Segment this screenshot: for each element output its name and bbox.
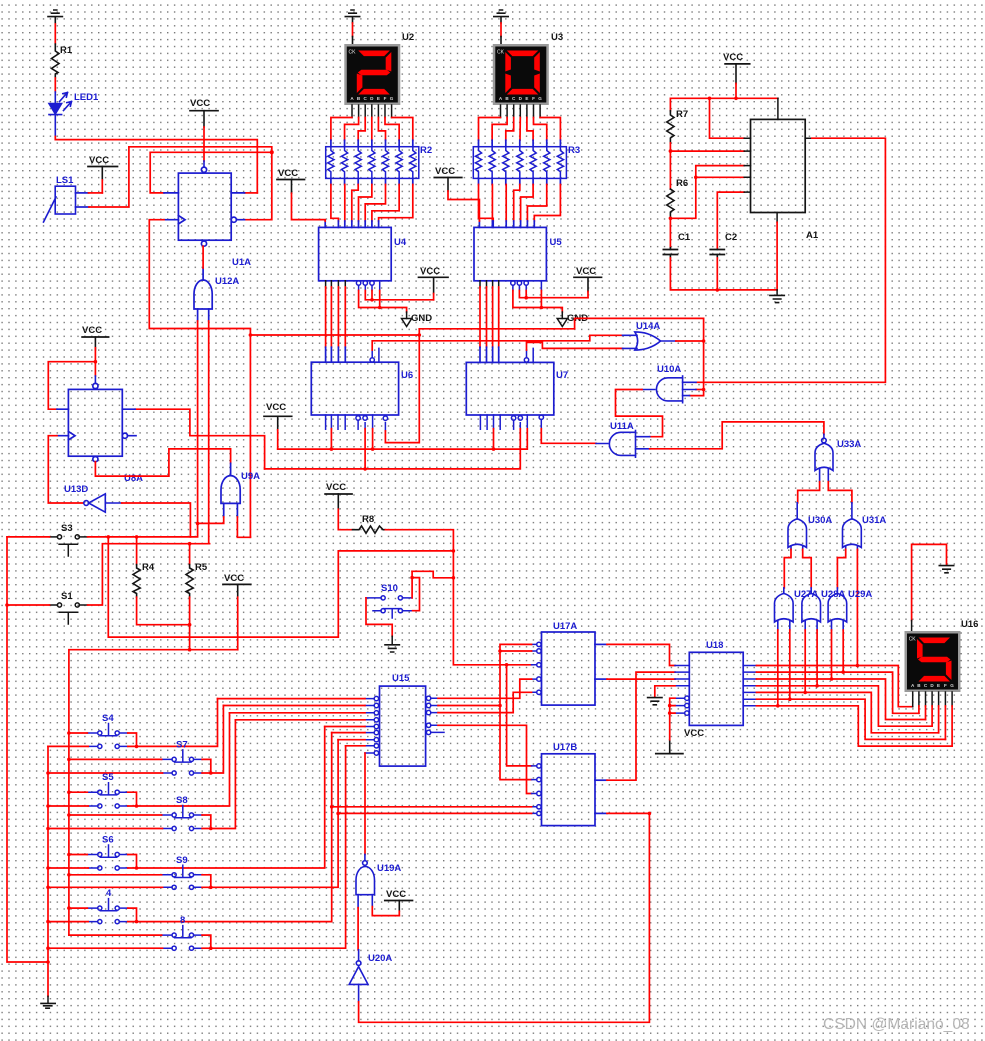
- VCC (U1A preset): [190, 98, 218, 166]
- node line3/line2 junction: [270, 150, 274, 154]
- wire LED1 to line1: [55, 137, 257, 193]
- wire U1A clock from vertical: [149, 220, 250, 335]
- NOR gate U33A: [815, 434, 833, 481]
- wire U5 outputs down to U7: [480, 281, 499, 287]
- svg-text:8: 8: [180, 915, 185, 926]
- U17B input bubbles: [532, 764, 542, 816]
- wire VCC to U8A J input: [48, 362, 95, 410]
- ground bus (switch commons): [47, 746, 49, 996]
- svg-text:VCC: VCC: [224, 573, 244, 584]
- wire U9A right input: [237, 517, 250, 537]
- ground (above U3): [494, 10, 508, 23]
- svg-text:U10A: U10A: [657, 364, 681, 375]
- svg-text:U1A: U1A: [232, 257, 251, 268]
- svg-text:VCC: VCC: [684, 728, 704, 739]
- svg-text:S5: S5: [102, 772, 114, 783]
- svg-text:U5: U5: [550, 237, 563, 248]
- svg-text:S9: S9: [176, 855, 188, 866]
- svg-text:F: F: [384, 96, 387, 101]
- svg-text:G: G: [390, 96, 394, 101]
- resistor R6: [667, 189, 674, 218]
- wire U4 RBI/VCC: [365, 291, 433, 300]
- svg-text:VCC: VCC: [723, 52, 743, 63]
- svg-text:U19A: U19A: [377, 863, 401, 874]
- wire U7 count-enable line: [527, 342, 623, 350]
- svg-text:U2: U2: [402, 32, 414, 43]
- svg-text:U29A: U29A: [848, 589, 872, 600]
- svg-text:U7: U7: [556, 370, 568, 381]
- wire U16 CK to ground: [912, 544, 947, 620]
- svg-text:F: F: [944, 683, 947, 688]
- wire S6: [48, 727, 325, 869]
- VCC (LS1): [88, 155, 118, 193]
- svg-text:C1: C1: [678, 232, 691, 243]
- wire U7 load pin down to U11A out: [541, 429, 596, 444]
- wire R4 bottom: [137, 597, 190, 625]
- IC U7: [466, 362, 554, 415]
- svg-text:VCC: VCC: [266, 402, 286, 413]
- svg-text:U31A: U31A: [862, 515, 886, 526]
- wire fan R3 to U5: [479, 178, 561, 184]
- wire S8: [48, 720, 235, 829]
- wire fan U2 to R2: [331, 118, 413, 141]
- U17A input bubbles: [532, 642, 542, 694]
- wire U4 outputs down to U6: [326, 281, 346, 287]
- wire R5 bottom to VCC line: [189, 597, 191, 650]
- AND gate U11A: [596, 431, 650, 458]
- wire 8: [48, 746, 346, 948]
- wire U7 QB to H1: [493, 429, 495, 449]
- svg-text:U4: U4: [394, 237, 407, 248]
- bus (clock line to U9A): [249, 335, 251, 537]
- wire R6 bottom to C1: [669, 218, 671, 247]
- svg-text:U16: U16: [961, 619, 978, 630]
- wire S10 row1 right to R8 net: [412, 571, 453, 598]
- wire U8A Q to H2: [135, 409, 265, 469]
- U4 bottom bubbles: [356, 281, 379, 291]
- wire U17A out2 to U18 pin3: [595, 678, 607, 680]
- svg-text:VCC: VCC: [278, 168, 298, 179]
- svg-text:C2: C2: [725, 232, 737, 243]
- ground (S10): [385, 645, 399, 652]
- wire S5: [48, 713, 230, 806]
- wire A1 output to U10A (long right vertical): [696, 138, 885, 382]
- IC U17A: [542, 632, 596, 705]
- wire U8A clock from U13D: [48, 436, 83, 503]
- wire R8 to S10 net vertical: [385, 530, 531, 665]
- loudspeaker LS1: [44, 186, 76, 222]
- wire to U3 CK: [500, 23, 502, 37]
- IC A1 (555): [751, 119, 806, 212]
- wire U17A out1 to U18 pin1: [595, 643, 607, 645]
- resistor R8: [353, 526, 386, 533]
- U15 right output bubbles: [426, 696, 444, 735]
- svg-text:U20A: U20A: [368, 953, 392, 964]
- wire R1 top: [54, 24, 56, 44]
- svg-text:E: E: [937, 683, 940, 688]
- wire U1A Qbar-bottom to U12A: [202, 246, 204, 268]
- svg-text:GND: GND: [411, 313, 432, 324]
- VCC (U4 pin1): [277, 168, 325, 221]
- svg-text:VCC: VCC: [435, 166, 455, 177]
- svg-text:U12A: U12A: [215, 276, 239, 287]
- OR gate U30A: [788, 503, 807, 550]
- svg-text:E: E: [377, 96, 380, 101]
- wire U13D input to S3 net: [122, 503, 191, 537]
- wire line3 (to U1A J input): [150, 152, 272, 193]
- bus H2 (load line from U8A Q): [265, 429, 521, 469]
- ground (A1): [770, 295, 784, 302]
- wire fan R2 to U4: [331, 178, 413, 184]
- wire U11A bottom input from U33A: [650, 422, 824, 449]
- wire U6 Q2 to H1: [330, 429, 332, 449]
- wire R1 to LED1: [54, 78, 56, 92]
- wire U29A inputs down: [831, 630, 833, 679]
- wire S3 left: [50, 536, 58, 538]
- ground GND (under U4): [402, 312, 412, 327]
- wire U30A inputs: [784, 549, 791, 588]
- switch S8: [162, 806, 203, 831]
- svg-text:S4: S4: [102, 713, 114, 724]
- wire U15 out4 to U17B pin3: [438, 725, 532, 793]
- IC U15: [380, 686, 426, 766]
- wire U14A output: [676, 340, 704, 342]
- LED1: [49, 92, 72, 137]
- svg-text:CK: CK: [497, 50, 505, 56]
- svg-text:U18: U18: [706, 640, 723, 651]
- LS1 bottom pin wire to line2: [76, 206, 90, 208]
- wire R8 net junction to U17B pin1: [507, 665, 532, 766]
- wire fan U3 to R3: [479, 118, 561, 141]
- OR gate U28A: [802, 588, 821, 630]
- VCC (H1 carry line): [264, 402, 292, 449]
- svg-text:U17A: U17A: [553, 621, 577, 632]
- VCC (U4 lamp test): [419, 266, 449, 300]
- OR gate U27A: [775, 588, 794, 630]
- wire U15 pin9 from U19A: [364, 753, 366, 854]
- seven-segment display U3: [493, 44, 549, 105]
- wire U17B out1 to U18 pin2: [595, 779, 607, 781]
- switch 4: [87, 899, 128, 924]
- VCC (U5 lamp test): [574, 266, 602, 298]
- svg-text:CSDN @Mariano_08: CSDN @Mariano_08: [823, 1016, 970, 1033]
- ground (bottom-left): [41, 1003, 55, 1008]
- wire U15 out1 to U17A pin4: [438, 679, 532, 698]
- svg-text:A1: A1: [806, 230, 819, 241]
- wire VCC rail to switch bus: [69, 650, 238, 935]
- svg-text:R8: R8: [362, 514, 374, 525]
- U7 bottom pins: [480, 415, 543, 429]
- wire U12A right input (S1 net vertical): [208, 321, 210, 544]
- svg-text:F: F: [532, 96, 535, 101]
- svg-text:S1: S1: [61, 591, 73, 602]
- resistor R5: [189, 544, 191, 565]
- wire S10 left to ground: [366, 598, 392, 636]
- wire C1 to gnd rail: [670, 258, 777, 290]
- AND gate U12A: [194, 268, 212, 321]
- wire S10 row2 right loop: [412, 578, 419, 611]
- wire U20A input from U17B: [359, 813, 650, 1022]
- resistor R4: [136, 537, 138, 565]
- wire S9: [48, 740, 338, 888]
- svg-text:R2: R2: [420, 145, 432, 156]
- wire S4: [48, 699, 218, 747]
- svg-text:U6: U6: [401, 370, 413, 381]
- flip-flop U8A: [57, 383, 136, 461]
- svg-text:G: G: [950, 683, 954, 688]
- switch 8: [162, 926, 203, 951]
- svg-text:VCC: VCC: [326, 482, 346, 493]
- wire Q stub join: [245, 192, 258, 194]
- wire U15 input lines: [218, 699, 366, 746]
- IC U17B: [542, 754, 596, 826]
- wire U6 count-enable line: [372, 335, 622, 350]
- svg-text:LED1: LED1: [74, 92, 99, 103]
- switch S10: [366, 596, 413, 618]
- svg-text:VCC: VCC: [89, 155, 109, 166]
- wire U6 pin to H1: [372, 429, 374, 449]
- LS1 top pin wire: [76, 192, 89, 194]
- wire U31A right input (to segment line 1): [856, 549, 858, 665]
- svg-text:VCC: VCC: [386, 889, 406, 900]
- svg-text:VCC: VCC: [82, 325, 102, 336]
- ground (U18 pin4): [655, 686, 675, 697]
- wire U8A clear from U9A output: [95, 449, 230, 476]
- switch S6: [87, 845, 128, 870]
- wire discharge line: [670, 150, 744, 152]
- svg-text:CK: CK: [909, 637, 917, 643]
- U6 load bubble (top): [370, 348, 379, 362]
- switch S4: [87, 724, 128, 749]
- wire U10A mid input joint: [696, 389, 704, 391]
- switch S5: [87, 783, 128, 808]
- svg-text:U17B: U17B: [553, 742, 577, 753]
- wire S3 net down to U15 feed line: [108, 537, 452, 637]
- wire R7 to R6 / A1 discharge: [669, 143, 671, 189]
- inverter U20A: [349, 961, 368, 1002]
- U18 right output stubs: [743, 666, 756, 706]
- wire U19A right input from VCC: [372, 907, 399, 916]
- seven-segment display U2: [344, 44, 400, 105]
- svg-text:CK: CK: [349, 50, 357, 56]
- VCC (U18 bubbles): [656, 698, 704, 753]
- NAND U19A: [356, 861, 375, 908]
- wire gnd5 line to U10A inputs: [575, 318, 704, 395]
- capacitor C1: [663, 250, 677, 255]
- svg-text:G: G: [538, 96, 542, 101]
- VCC (A1): [723, 52, 750, 98]
- wire U17B out2 to bottom loop: [595, 812, 607, 814]
- svg-text:R3: R3: [568, 145, 580, 156]
- VCC (pull-up rail): [223, 573, 251, 650]
- wire U15 out2 to U17A pins 1,2 and U17B pin2: [438, 644, 532, 779]
- wire VCC rail to R7 and A1 top: [670, 98, 778, 111]
- bus (line 335 to U6 load): [250, 334, 419, 336]
- IC U4: [319, 227, 392, 280]
- AND gate U9A: [221, 463, 240, 517]
- wire U9A left input: [198, 517, 224, 523]
- bus H1 (carry line): [278, 429, 528, 449]
- U7 load bubble (top): [524, 348, 533, 362]
- wire U6 load pin down: [384, 431, 386, 443]
- svg-text:U3: U3: [551, 32, 563, 43]
- wire S1 right to pull-up line: [79, 604, 87, 606]
- AND gate U10A: [642, 376, 696, 403]
- U16 pin stubs: [913, 692, 952, 707]
- svg-text:VCC: VCC: [420, 266, 440, 277]
- wire A1 reset pin: [710, 98, 745, 138]
- wire 4: [48, 733, 332, 922]
- svg-text:S7: S7: [176, 740, 188, 751]
- svg-text:U13D: U13D: [64, 484, 88, 495]
- svg-text:R6: R6: [676, 178, 688, 189]
- U16 pin wires down to segment rows: [919, 706, 952, 746]
- wire BCD bit lines to U17B pins 4,5: [332, 806, 532, 808]
- wire S7: [48, 706, 223, 774]
- resistor network R2: [326, 147, 419, 179]
- resistor R7: [667, 111, 674, 143]
- svg-text:S6: S6: [102, 835, 114, 846]
- svg-text:VCC: VCC: [576, 266, 596, 277]
- switch S3: [57, 535, 79, 556]
- svg-text:R1: R1: [60, 45, 73, 56]
- svg-text:E: E: [525, 96, 528, 101]
- wire U5 bubble1 to GND: [513, 291, 562, 313]
- ground (above U2): [345, 10, 359, 23]
- U15 left input bubbles: [365, 696, 379, 755]
- IC U18: [689, 652, 743, 725]
- wire to U2 CK: [352, 23, 354, 37]
- wire line2 to U1A Q-bar: [129, 147, 272, 220]
- wire U27A inputs down to segment lines: [777, 630, 779, 706]
- wire U33A inputs: [798, 482, 820, 503]
- svg-text:U8A: U8A: [124, 473, 143, 484]
- VCC (R8): [325, 482, 352, 530]
- wire U19A left input from U20A: [357, 908, 359, 950]
- wire U12A left input (S3 net vertical): [197, 321, 199, 523]
- wire U4 bubble1 to GND: [359, 291, 407, 313]
- VCC (U5 pin1): [434, 166, 479, 221]
- svg-text:4: 4: [106, 888, 112, 899]
- svg-text:LS1: LS1: [56, 175, 74, 186]
- wire R6 bottom to THR/TRI: [670, 166, 744, 219]
- wire A1 ground pin: [776, 222, 778, 290]
- U3 pin stubs: [501, 105, 541, 118]
- U18 left pin stubs: [675, 666, 689, 716]
- switch S9: [162, 865, 203, 889]
- A1 pin stubs: [744, 98, 812, 222]
- ground (top of R1): [48, 10, 62, 24]
- flip-flop U1A: [164, 167, 245, 246]
- svg-text:VCC: VCC: [190, 98, 210, 109]
- seven-segment display U16: [905, 631, 961, 692]
- U2 pin stubs (black): [352, 105, 392, 118]
- ground GND (under U5): [557, 312, 567, 327]
- wire U10A output to U11A input: [616, 390, 663, 437]
- svg-text:U30A: U30A: [808, 515, 832, 526]
- wire U6 load net: [385, 329, 419, 443]
- wire U28A inputs down: [804, 630, 806, 692]
- svg-text:U11A: U11A: [610, 421, 634, 432]
- VCC (U19A): [385, 889, 413, 916]
- svg-text:U15: U15: [392, 673, 410, 684]
- svg-text:U9A: U9A: [241, 471, 260, 482]
- svg-text:R4: R4: [142, 562, 155, 573]
- svg-text:U14A: U14A: [636, 321, 660, 332]
- VCC (U8A preset): [82, 325, 109, 383]
- svg-text:S3: S3: [61, 523, 73, 534]
- resistor R1: [52, 44, 60, 78]
- capacitor C2: [710, 250, 724, 255]
- switch S7: [162, 750, 203, 775]
- IC U5: [474, 227, 546, 280]
- ground (U16): [939, 566, 953, 573]
- wire U15 out3 to U17A pin5: [438, 692, 532, 712]
- wire segment lines U18 to U16: [757, 666, 953, 747]
- switch S1: [57, 603, 79, 624]
- wire U5 RBI/VCC: [519, 291, 588, 298]
- U5 bottom bubbles: [511, 281, 542, 291]
- wire S3-S1 left loop down: [7, 537, 48, 962]
- wire U31A left input: [837, 549, 845, 588]
- OR gate U31A: [843, 503, 862, 550]
- resistor network R3: [473, 147, 566, 179]
- svg-text:S10: S10: [381, 583, 398, 594]
- svg-text:S8: S8: [176, 795, 188, 806]
- OR gate U14A: [623, 332, 676, 350]
- wire S1 left: [50, 604, 58, 606]
- wire S3 right to pull-ups: [79, 536, 87, 538]
- svg-text:U33A: U33A: [837, 439, 861, 450]
- inverter U13D: [84, 494, 122, 512]
- wire U6 QD to H2: [364, 429, 366, 469]
- IC U6: [311, 362, 398, 415]
- svg-text:R7: R7: [676, 109, 688, 120]
- OR gate U29A: [828, 588, 847, 630]
- U6 bottom pins: [326, 415, 388, 431]
- wire C2 bottom to gnd rail: [716, 258, 718, 290]
- svg-text:R5: R5: [195, 562, 208, 573]
- wire C2 top to A1 control: [717, 192, 744, 248]
